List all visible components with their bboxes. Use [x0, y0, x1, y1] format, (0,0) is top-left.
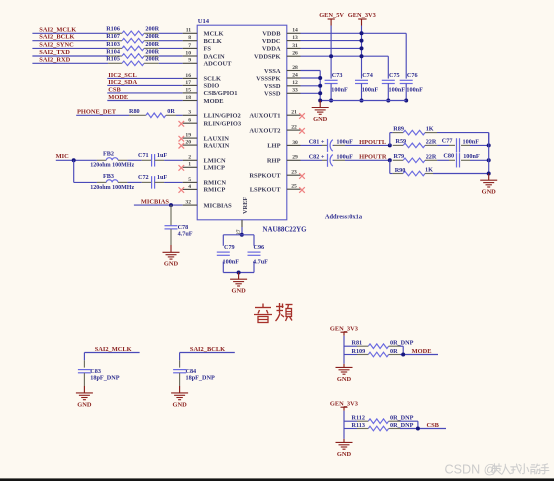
wire ground rail horizontal	[320, 100, 406, 102]
svg-text:4.7uF: 4.7uF	[178, 231, 193, 238]
title text audio (Chinese)	[254, 303, 293, 323]
svg-text:R89: R89	[393, 125, 404, 132]
svg-text:100uF: 100uF	[336, 154, 353, 161]
net label MICBIAS	[141, 198, 169, 205]
svg-text:IIC2_SCL: IIC2_SCL	[108, 72, 136, 79]
svg-text:GND: GND	[337, 451, 352, 458]
svg-text:11: 11	[186, 28, 191, 34]
wire FB3 to C72	[127, 181, 141, 183]
wire net SAI2_RXD to resistor R105	[32, 62, 108, 64]
resistor R80 0R	[129, 108, 176, 118]
svg-text:5: 5	[188, 177, 191, 183]
power port GEN_3V3 CSB circuit	[330, 400, 358, 410]
svg-text:16: 16	[185, 73, 191, 79]
svg-text:120ohm 100MHz: 120ohm 100MHz	[90, 163, 134, 169]
svg-text:R106: R106	[106, 26, 120, 33]
svg-text:100uF: 100uF	[336, 139, 353, 146]
ground CSB circuit	[336, 442, 353, 457]
wire net CSB	[107, 92, 182, 94]
svg-text:LMICN: LMICN	[204, 158, 227, 165]
svg-text:PHONE_DET: PHONE_DET	[77, 109, 117, 116]
capacitor C96 4.7uF	[248, 244, 269, 265]
pin 6 RLIN/GPIO3 no-connect X	[179, 118, 242, 128]
svg-text:SAI2_MCLK: SAI2_MCLK	[95, 346, 132, 353]
svg-text:23: 23	[291, 170, 297, 176]
wire MIC node	[56, 159, 97, 161]
svg-text:Address:0x1a: Address:0x1a	[325, 214, 363, 221]
resistor R81 0R_DNP	[352, 340, 414, 349]
pin 29 RHP	[267, 155, 301, 165]
svg-text:MICBIAS: MICBIAS	[204, 202, 233, 209]
svg-text:GND: GND	[482, 189, 497, 196]
svg-text:RHP: RHP	[267, 158, 281, 165]
power port GEN_3V3	[348, 12, 376, 26]
net label CSB	[427, 422, 440, 429]
junction HPOUTR	[388, 158, 392, 162]
wire VSSA to ground bus	[301, 70, 321, 72]
resistor R79 22R	[393, 153, 437, 163]
svg-text:GEN_3V3: GEN_3V3	[330, 325, 358, 332]
svg-text:10: 10	[185, 50, 191, 56]
svg-text:8: 8	[188, 35, 191, 41]
svg-text:4.7uF: 4.7uF	[253, 258, 268, 265]
svg-text:FB2: FB2	[103, 151, 114, 158]
svg-text:NAU88C22YG: NAU88C22YG	[263, 227, 308, 234]
svg-text:1uF: 1uF	[157, 174, 168, 181]
svg-text:3: 3	[188, 110, 191, 116]
wire net SAI2_MCLK bottom	[84, 353, 139, 361]
junction C76 ground rail	[404, 99, 408, 103]
junction 3V3 VDDC	[360, 39, 364, 43]
svg-text:14: 14	[292, 28, 298, 34]
wire VSSSPK to ground bus	[301, 77, 321, 79]
svg-text:9: 9	[188, 58, 191, 64]
svg-text:17: 17	[185, 80, 191, 86]
svg-text:100nF: 100nF	[406, 87, 423, 94]
svg-text:GND: GND	[164, 261, 179, 268]
pin 11 MCLK	[183, 28, 224, 38]
svg-text:C71: C71	[138, 152, 149, 159]
wire VREF to capacitor pair	[241, 227, 243, 235]
junction C80 ground rail	[487, 158, 491, 162]
wire C83 to ground	[83, 373, 85, 393]
svg-text:R109: R109	[352, 348, 366, 355]
net label SAI2_BCLK bottom	[190, 346, 225, 353]
wire net SAI2_BCLK to resistor R107	[32, 40, 108, 42]
wire GEN_3V3 to ground CSB	[343, 429, 345, 443]
capacitor C75 100nF	[382, 72, 405, 101]
svg-text:200R: 200R	[145, 48, 159, 55]
capacitor C83 18pF_DNP	[78, 360, 120, 381]
svg-text:100nF: 100nF	[223, 258, 240, 265]
svg-text:0R: 0R	[167, 108, 175, 115]
svg-text:7: 7	[188, 43, 191, 49]
junction VSSD 12	[318, 84, 322, 88]
svg-text:30: 30	[292, 140, 298, 146]
svg-text:GND: GND	[172, 401, 187, 408]
wire GEN_3V3 to ground MODE	[343, 355, 345, 368]
resistor R90 1K	[393, 167, 433, 176]
pin 32 MICBIAS	[183, 200, 232, 210]
svg-text:SDIO: SDIO	[204, 83, 220, 90]
wire MIC branch vertical	[73, 160, 75, 182]
svg-text:RSPKOUT: RSPKOUT	[249, 173, 281, 180]
junction MICBIAS / C78	[169, 203, 173, 207]
pin 9 ADCOUT	[183, 58, 232, 68]
pin 4 RMICP no-connect X	[179, 184, 226, 194]
net label SAI2_MCLK	[39, 26, 76, 33]
svg-text:LLIN/GPIO2: LLIN/GPIO2	[204, 113, 241, 120]
svg-text:12: 12	[292, 80, 298, 86]
svg-text:GND: GND	[337, 376, 352, 383]
wire VDDSPK rail to C75	[301, 56, 389, 78]
svg-text:HPOUTL: HPOUTL	[359, 139, 386, 146]
net label HPOUTR	[345, 154, 390, 161]
junction GEN_5V VDDSPK	[329, 54, 333, 58]
wire net SAI2_TXD to resistor R104	[32, 55, 108, 57]
wire GEN_3V3 down CSB	[344, 411, 357, 429]
svg-text:C79: C79	[224, 244, 235, 251]
svg-text:C81 +: C81 +	[309, 139, 325, 146]
svg-text:VDDB: VDDB	[262, 31, 281, 38]
net label SAI2_TXD	[39, 49, 70, 56]
svg-text:C74: C74	[362, 72, 373, 79]
pin 30 LHP	[267, 140, 300, 150]
svg-text:C75: C75	[389, 72, 400, 79]
svg-text:0R_DNP: 0R_DNP	[390, 415, 414, 422]
svg-text:R112: R112	[352, 415, 365, 422]
wire FB2 to C71	[127, 159, 141, 161]
pin 22 AUXOUT2 no-connect X	[249, 125, 304, 135]
wire R89 to ground rail	[437, 133, 489, 146]
svg-text:CSDN @: CSDN @	[445, 463, 497, 477]
power port GEN_5V	[319, 12, 344, 26]
svg-text:RLIN/GPIO3: RLIN/GPIO3	[204, 121, 242, 128]
svg-text:CSB/GPIO1: CSB/GPIO1	[204, 90, 238, 97]
svg-text:GEN_3V3: GEN_3V3	[348, 12, 376, 19]
svg-text:100nF: 100nF	[463, 153, 480, 160]
text Address:0x1a	[325, 214, 363, 221]
capacitor C78 4.7uF	[165, 205, 193, 238]
svg-text:R105: R105	[106, 56, 120, 63]
svg-text:120ohm 100MHz: 120ohm 100MHz	[90, 185, 134, 191]
ground below C78	[163, 252, 180, 267]
svg-text:RMICP: RMICP	[204, 187, 226, 194]
pin 28 VSSA	[264, 65, 300, 75]
svg-text:LHP: LHP	[267, 143, 280, 150]
svg-text:22R: 22R	[426, 138, 437, 145]
svg-text:VSSD: VSSD	[264, 91, 281, 98]
capacitor C79 100nF	[217, 244, 239, 265]
svg-text:MIC: MIC	[56, 153, 70, 160]
svg-text:0R: 0R	[390, 348, 398, 355]
wire net SAI2_SYNC to resistor R103	[32, 47, 108, 49]
pin 20 RAUXIN no-connect X	[179, 140, 230, 150]
wire ground bus vertical	[319, 71, 321, 101]
svg-text:RMICN: RMICN	[204, 180, 227, 187]
svg-text:GEN_3V3: GEN_3V3	[330, 400, 358, 407]
wire VDDA to 3V3	[301, 47, 362, 49]
svg-text:100nF: 100nF	[389, 87, 406, 94]
resistor R106 200R	[106, 26, 159, 36]
svg-text:15: 15	[185, 87, 191, 93]
wire R81 to MODE junction	[400, 346, 438, 354]
svg-text:VSSSPK: VSSSPK	[256, 75, 280, 82]
wire R103 to pin 7	[159, 47, 183, 49]
svg-text:R81: R81	[352, 340, 363, 347]
ground power rail	[312, 108, 329, 123]
wire C71 to pin 2	[164, 159, 183, 161]
junction VREF bottom	[237, 271, 241, 275]
wire rail to ground symbol	[488, 174, 490, 181]
wire ground rail stem	[319, 101, 321, 108]
resistor R89 1K	[393, 125, 437, 135]
svg-text:200R: 200R	[145, 33, 159, 40]
svg-text:25: 25	[291, 184, 297, 190]
svg-text:R80: R80	[129, 108, 140, 115]
svg-text:R107: R107	[106, 33, 120, 40]
junction 3V3 VDDSPK	[360, 54, 364, 58]
net label MIC	[56, 153, 70, 160]
svg-text:SAI2_BCLK: SAI2_BCLK	[190, 346, 225, 353]
ground below C83	[76, 393, 93, 408]
junction R90 ground rail	[487, 172, 491, 176]
capacitor C81 100uF polarized	[301, 139, 354, 152]
resistor R104 200R	[106, 48, 159, 58]
net label IIC2_SCL	[108, 72, 136, 79]
junction VSSD 33	[318, 91, 322, 95]
svg-text:4: 4	[188, 184, 191, 190]
ground headphone rail	[480, 180, 497, 195]
svg-text:SAI2_SYNC: SAI2_SYNC	[39, 41, 74, 48]
svg-text:29: 29	[292, 155, 298, 161]
junction HPOUTL	[388, 143, 392, 147]
net label MODE	[412, 348, 432, 355]
pin 24 VSSSPK	[256, 72, 300, 82]
svg-text:32: 32	[185, 200, 191, 206]
svg-text:U14: U14	[198, 18, 210, 25]
junction MIC	[72, 158, 76, 162]
svg-text:1K: 1K	[425, 167, 433, 174]
pin 5 RMICN	[183, 177, 227, 187]
pin 23 RSPKOUT no-connect X	[249, 170, 304, 180]
wire R105 to pin 9	[159, 62, 183, 64]
wire R107 to pin 8	[159, 40, 183, 42]
wire net SAI2_BCLK bottom	[180, 353, 235, 361]
capacitor C74 100nF	[355, 72, 378, 101]
pin 2 LMICN	[183, 155, 226, 165]
wire C78 to ground	[170, 229, 172, 252]
capacitor C82 100uF polarized	[301, 154, 354, 167]
svg-text:CSB: CSB	[108, 86, 121, 93]
resistor R59 22R	[393, 138, 437, 148]
svg-text:GND: GND	[313, 116, 328, 123]
svg-text:R79: R79	[394, 153, 405, 160]
pin 19 LAUXIN no-connect X	[179, 133, 230, 143]
pin 14 VDDB	[262, 28, 300, 38]
wire R104 to pin 10	[159, 55, 183, 57]
svg-text:LAUXIN: LAUXIN	[204, 135, 230, 142]
svg-text:VSSD: VSSD	[264, 83, 281, 90]
pin 8 BCLK	[183, 35, 222, 45]
svg-text:22R: 22R	[426, 153, 437, 160]
pin 25 LSPKOUT no-connect X	[250, 184, 305, 194]
pin 13 VDDC	[262, 35, 301, 45]
wire HPOUTR branch down to R90	[390, 160, 393, 173]
svg-text:1uF: 1uF	[157, 152, 168, 159]
svg-text:MICBIAS: MICBIAS	[141, 198, 169, 205]
svg-text:BCLK: BCLK	[204, 38, 222, 45]
wire net IIC2_SDA	[107, 84, 182, 86]
ferrite bead FB2 120ohm 100MHz	[90, 151, 134, 169]
wire HPOUTL branch up to R89	[390, 133, 393, 146]
pin 10 DACIN	[183, 50, 225, 60]
resistor R109 0R	[352, 348, 401, 357]
svg-text:200R: 200R	[145, 56, 159, 63]
wire VSSD to ground bus	[301, 85, 321, 87]
svg-text:31: 31	[292, 43, 298, 49]
svg-text:IIC2_SDA: IIC2_SDA	[108, 79, 137, 86]
svg-text:18pF_DNP: 18pF_DNP	[186, 374, 215, 381]
wire R106 to pin 11	[159, 32, 183, 34]
resistor R105 200R	[106, 56, 159, 66]
pin 27 VREF	[236, 197, 249, 235]
ground MODE circuit	[336, 367, 353, 382]
svg-text:C96: C96	[254, 244, 265, 251]
svg-text:FB3: FB3	[103, 173, 114, 180]
junction 3V3 VDDB	[360, 31, 364, 35]
wire R112 to CSB junction	[400, 421, 446, 428]
net label HPOUTL	[345, 139, 390, 146]
net label IIC2_SDA	[108, 79, 137, 86]
junction ground rail left	[318, 99, 322, 103]
pin 33 VSSD	[264, 88, 300, 98]
svg-text:24: 24	[292, 72, 298, 78]
pin 15 CSB/GPIO1	[183, 87, 238, 97]
net label SAI2_RXD	[39, 56, 70, 63]
wire R80 to pin 3	[176, 114, 183, 116]
svg-text:VDDC: VDDC	[262, 38, 281, 45]
junction C77 ground rail	[487, 143, 491, 147]
svg-text:6: 6	[188, 118, 191, 124]
svg-text:MODE: MODE	[204, 98, 224, 105]
net label PHONE_DET	[77, 109, 117, 116]
ground below C84	[171, 393, 188, 408]
wire VSSD to ground bus	[301, 92, 321, 94]
resistor R107 200R	[106, 33, 159, 43]
svg-text:R103: R103	[106, 41, 120, 48]
wire GEN_3V3 down	[361, 26, 363, 79]
svg-text:MCLK: MCLK	[204, 31, 224, 38]
svg-text:FS: FS	[204, 46, 212, 53]
junction VREF top	[240, 233, 244, 237]
capacitor C72 1uF	[138, 174, 167, 188]
svg-text:CSB: CSB	[427, 422, 440, 429]
svg-text:C80: C80	[443, 153, 454, 160]
pin 18 MODE	[183, 95, 224, 105]
svg-text:1: 1	[188, 162, 191, 168]
svg-text:0R_DNP: 0R_DNP	[390, 422, 414, 429]
junction VSSSPK	[318, 76, 322, 80]
svg-text:26: 26	[292, 51, 298, 57]
wire net PHONE_DET to resistor R80	[76, 114, 129, 116]
svg-text:GEN_5V: GEN_5V	[319, 12, 344, 19]
svg-text:C76: C76	[407, 72, 418, 79]
svg-text:21: 21	[291, 110, 297, 116]
ferrite bead FB3 120ohm 100MHz	[74, 173, 135, 191]
svg-text:0R_DNP: 0R_DNP	[390, 340, 414, 347]
IC U14 NAU88C22YG body	[197, 18, 307, 233]
wire R90 to ground rail	[433, 173, 489, 175]
svg-text:100nF: 100nF	[331, 87, 348, 94]
svg-text:SCLK: SCLK	[204, 76, 222, 83]
svg-text:22: 22	[291, 125, 297, 131]
svg-text:SAI2_RXD: SAI2_RXD	[39, 56, 70, 63]
svg-text:VDDA: VDDA	[262, 46, 281, 53]
wire GEN_3V3 down MODE	[344, 336, 357, 355]
capacitor C71 1uF	[138, 152, 167, 166]
watermark CSDN	[445, 463, 549, 477]
net label SAI2_MCLK bottom	[95, 346, 132, 353]
pin 17 SDIO	[183, 80, 220, 90]
svg-text:C77: C77	[442, 137, 453, 144]
wire net IIC2_SCL	[107, 77, 182, 79]
bottom bar	[0, 478, 554, 481]
svg-text:100nF: 100nF	[362, 87, 379, 94]
junction C75 ground rail	[386, 99, 390, 103]
capacitor C76 100nF	[400, 72, 423, 101]
svg-text:C72: C72	[138, 174, 149, 181]
junction C73 ground rail	[329, 99, 333, 103]
resistor R112 0R_DNP	[352, 415, 414, 424]
svg-text:ADCOUT: ADCOUT	[204, 61, 233, 68]
svg-text:200R: 200R	[145, 26, 159, 33]
junction CSB	[416, 427, 420, 431]
pin 7 FS	[183, 43, 212, 53]
svg-text:C73: C73	[332, 72, 343, 79]
wire net MICBIAS	[134, 204, 183, 206]
wire C72 to pin 5	[164, 181, 183, 183]
pin 16 SCLK	[183, 73, 221, 83]
capacitor C80 100nF	[437, 153, 489, 168]
svg-text:13: 13	[292, 35, 298, 41]
svg-text:R59: R59	[396, 138, 407, 145]
resistor R103 200R	[106, 41, 159, 51]
svg-text:2: 2	[188, 155, 191, 161]
wire VDDB rail to C76	[301, 33, 407, 78]
capacitor C84 18pF_DNP	[173, 360, 215, 381]
svg-text:GND: GND	[231, 288, 246, 295]
svg-text:DACIN: DACIN	[204, 53, 225, 60]
svg-text:AUXOUT1: AUXOUT1	[249, 113, 280, 120]
pin 31 VDDA	[262, 43, 301, 53]
svg-text:HPOUTR: HPOUTR	[359, 154, 387, 161]
power port GEN_3V3 MODE circuit	[330, 325, 358, 335]
svg-text:MODE: MODE	[412, 348, 432, 355]
svg-text:1K: 1K	[426, 125, 434, 132]
svg-text:200R: 200R	[145, 41, 159, 48]
svg-text:LMICP: LMICP	[204, 165, 226, 172]
svg-text:R113: R113	[352, 422, 365, 429]
capacitor C77 100nF	[437, 137, 489, 152]
capacitor C73 100nF	[325, 72, 348, 101]
svg-text:18pF_DNP: 18pF_DNP	[90, 374, 119, 381]
svg-text:33: 33	[292, 88, 298, 94]
wire C84 to ground	[179, 373, 181, 393]
svg-text:20: 20	[185, 140, 191, 146]
pin 12 VSSD	[264, 80, 300, 90]
pin 3 LLIN/GPIO2	[183, 110, 241, 120]
